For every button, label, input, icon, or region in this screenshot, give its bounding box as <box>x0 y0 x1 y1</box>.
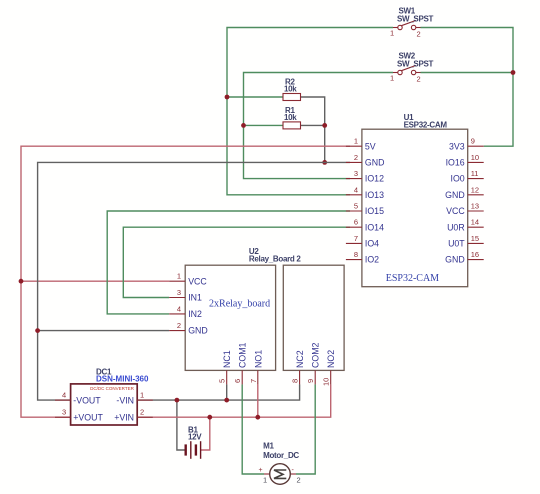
svg-text:IN2: IN2 <box>188 309 202 319</box>
svg-text:4: 4 <box>354 185 358 194</box>
switch SW2 <box>393 65 421 74</box>
svg-text:IO4: IO4 <box>365 239 379 249</box>
svg-text:10k: 10k <box>284 113 297 122</box>
svg-text:6: 6 <box>233 379 242 383</box>
U2 bottom pin stubs <box>227 370 331 384</box>
svg-text:5: 5 <box>218 379 227 383</box>
junction NO1 tap <box>255 415 260 420</box>
label SW1 reference <box>399 7 416 16</box>
junction SW2/3V3 <box>511 70 516 75</box>
DC1 pin names <box>73 396 134 423</box>
svg-text:12: 12 <box>471 185 479 194</box>
svg-text:Motor_DC: Motor_DC <box>263 451 299 460</box>
label R2 value 10k <box>284 85 297 94</box>
svg-text:3V3: 3V3 <box>449 141 465 151</box>
wire junction branch to R2 left <box>227 96 283 98</box>
pin number M1-2 <box>297 476 301 485</box>
svg-text:NC1: NC1 <box>222 350 232 368</box>
svg-text:2: 2 <box>297 476 301 485</box>
junction battery minus tap <box>175 398 180 403</box>
wire NO1 drop <box>257 384 259 417</box>
DC1 pin numbers <box>62 391 144 417</box>
svg-text:ESP32-CAM: ESP32-CAM <box>404 121 448 130</box>
svg-text:VCC: VCC <box>446 206 465 216</box>
junction R2 tap <box>225 95 230 100</box>
svg-text:1: 1 <box>263 476 267 485</box>
battery B1 <box>186 441 201 459</box>
op-amp U1 body (ESP32-CAM) <box>362 129 468 287</box>
svg-text:7: 7 <box>249 379 258 383</box>
U2 left pin names <box>188 276 208 335</box>
wire battery minus drop <box>177 400 186 450</box>
svg-text:SW_SPST: SW_SPST <box>397 60 434 69</box>
svg-text:COM1: COM1 <box>238 342 248 368</box>
svg-text:GND: GND <box>188 326 208 336</box>
wire -VIN rail: DC1 to battery minus, NC1, NC2 <box>137 384 299 400</box>
wire GND net: U1 pin2 left, down, to DC1 -VOUT <box>38 162 350 400</box>
svg-text:M1: M1 <box>263 442 274 451</box>
svg-text:3: 3 <box>354 169 358 178</box>
svg-text:IO12: IO12 <box>365 174 384 184</box>
junction R1 right <box>322 123 327 128</box>
wire battery plus riser <box>201 417 210 450</box>
wire SW2 pin2 to 3V3 vertical <box>421 72 514 74</box>
label 2xRelay_board <box>209 299 270 310</box>
pin number SW2-2 <box>417 75 421 84</box>
motor M1 <box>264 464 296 485</box>
U1 right pin numbers <box>471 137 479 259</box>
svg-text:Relay_Board 2: Relay_Board 2 <box>249 255 302 264</box>
label B1 value 12V <box>188 432 202 441</box>
label U1 reference <box>404 113 414 122</box>
svg-text:IO2: IO2 <box>365 255 379 265</box>
U2 bottom pin names NC1 COM1 NO1 NC2 COM2 NO2 <box>222 342 336 368</box>
label R1 reference <box>285 106 295 115</box>
label M1 value Motor_DC <box>263 451 299 460</box>
svg-text:3: 3 <box>177 288 181 297</box>
label SW1 value SW_SPST <box>397 15 434 24</box>
svg-text:ESP32-CAM: ESP32-CAM <box>386 273 439 284</box>
svg-text:VCC: VCC <box>188 276 207 286</box>
svg-text:-VIN: -VIN <box>116 396 134 406</box>
junction NC1 tap <box>224 398 229 403</box>
U1 right pin stubs 9-16 <box>468 146 484 259</box>
svg-text:U0T: U0T <box>448 239 465 249</box>
svg-text:9: 9 <box>306 379 315 383</box>
wire NC1 drop <box>226 384 228 400</box>
DC-DC converter DC1 <box>71 384 138 425</box>
svg-text:GND: GND <box>365 158 385 168</box>
junction VCC tap <box>19 279 24 284</box>
label B1 reference <box>188 425 198 434</box>
svg-text:SW_SPST: SW_SPST <box>397 15 434 24</box>
svg-text:14: 14 <box>471 218 479 227</box>
svg-text:1: 1 <box>390 74 394 83</box>
wire COM1 to motor pin1 <box>242 384 264 474</box>
wire +VIN rail: DC1 to battery plus, NO1, NO2 <box>137 384 331 417</box>
svg-text:IO16: IO16 <box>446 158 465 168</box>
pin number M1-1 <box>263 476 267 485</box>
label SW2 reference <box>399 52 416 61</box>
svg-text:2: 2 <box>140 408 144 417</box>
relay module U2 right box <box>283 265 344 370</box>
svg-text:10: 10 <box>471 153 479 162</box>
svg-text:13: 13 <box>471 202 479 211</box>
svg-text:8: 8 <box>354 250 358 259</box>
svg-text:4: 4 <box>62 391 66 400</box>
svg-text:5V: 5V <box>365 141 376 151</box>
svg-text:10: 10 <box>322 378 331 386</box>
svg-text:U0R: U0R <box>447 222 465 232</box>
svg-text:DC/DC CONVERTER: DC/DC CONVERTER <box>90 386 134 391</box>
svg-text:NC2: NC2 <box>295 350 305 368</box>
svg-text:DSN-MINI-360: DSN-MINI-360 <box>96 375 149 384</box>
motor minus sign <box>292 467 295 474</box>
relay module U2 left box <box>185 265 275 370</box>
svg-text:1: 1 <box>390 29 394 38</box>
junction U2 GND tap <box>35 328 40 333</box>
wire SW1 pin1 to IO13 <box>227 28 393 195</box>
switch SW1 <box>393 20 421 29</box>
U2 left pin numbers <box>177 272 181 330</box>
svg-text:4: 4 <box>177 304 181 313</box>
wire R1 right to vertical <box>301 124 325 126</box>
pin number SW1-1 <box>390 29 394 38</box>
U1 left pin numbers <box>354 137 358 259</box>
label DC/DC CONVERTER tiny <box>90 386 134 391</box>
svg-text:2: 2 <box>417 30 421 39</box>
svg-text:1: 1 <box>177 272 181 281</box>
resistor R2 <box>283 94 301 101</box>
svg-text:IO0: IO0 <box>451 174 465 184</box>
svg-text:GND: GND <box>445 190 465 200</box>
junction R1 tap <box>241 123 246 128</box>
svg-text:IN1: IN1 <box>188 293 202 303</box>
label U1 value ESP32-CAM (small) <box>404 121 448 130</box>
label R2 reference <box>285 78 295 87</box>
svg-text:COM2: COM2 <box>311 342 321 368</box>
svg-text:10k: 10k <box>284 85 297 94</box>
motor plus sign <box>259 467 263 474</box>
wire R2 right to GND line <box>301 97 325 162</box>
wire GND branch to U2 GND <box>38 330 170 332</box>
U1 right pin names <box>445 141 465 264</box>
svg-text:1: 1 <box>140 391 144 400</box>
wire SW2 pin1 to IO12 <box>244 73 394 179</box>
label DC1 reference <box>96 368 112 377</box>
wire SW1 pin2 to 3V3 vertical <box>421 28 514 147</box>
svg-text:2: 2 <box>177 321 181 330</box>
svg-text:5: 5 <box>354 202 358 211</box>
resistor R1 <box>283 122 301 129</box>
wire IO14 to U2 IN1 <box>123 227 350 297</box>
svg-text:-VOUT: -VOUT <box>73 396 101 406</box>
wire 5V net: U1 pin1 left, down, to DC1 +VOUT <box>21 146 350 417</box>
svg-text:2: 2 <box>417 75 421 84</box>
U1 left pin stubs 1-8 <box>346 146 362 259</box>
svg-text:3: 3 <box>62 408 66 417</box>
svg-text:9: 9 <box>471 137 475 146</box>
svg-text:IO13: IO13 <box>365 190 384 200</box>
wire COM2 to motor pin2 <box>296 384 315 474</box>
svg-text:6: 6 <box>354 218 358 227</box>
svg-text:7: 7 <box>354 234 358 243</box>
junction GND tap at resistor vertical <box>322 160 327 165</box>
svg-text:+VOUT: +VOUT <box>73 413 103 423</box>
svg-text:+: + <box>259 467 263 474</box>
wire IO15 to U2 IN2 <box>107 211 350 314</box>
junction battery plus tap <box>207 415 212 420</box>
svg-text:15: 15 <box>471 234 479 243</box>
svg-text:16: 16 <box>471 250 479 259</box>
DC1 left pin stubs <box>55 400 71 417</box>
U2 bottom pin numbers 5 6 7 8 9 10 <box>218 378 331 386</box>
label ESP32-CAM big <box>386 273 439 284</box>
svg-text:12V: 12V <box>188 432 202 441</box>
label U2 value Relay_Board 2 <box>249 255 302 264</box>
U2 left pin stubs <box>169 281 185 330</box>
svg-text:8: 8 <box>291 379 300 383</box>
svg-text:2: 2 <box>354 153 358 162</box>
label R1 value 10k <box>284 113 297 122</box>
svg-text:NO2: NO2 <box>326 350 336 368</box>
svg-text:NO1: NO1 <box>253 350 263 368</box>
svg-text:11: 11 <box>471 169 479 178</box>
U1 left pin names <box>365 141 385 264</box>
wire junction branch to R1 left <box>244 124 284 126</box>
label SW2 value SW_SPST <box>397 60 434 69</box>
svg-text:2xRelay_board: 2xRelay_board <box>209 299 270 310</box>
label DC1 value DSN-MINI-360 <box>96 375 149 384</box>
label U2 reference <box>249 247 259 256</box>
svg-text:1: 1 <box>354 137 358 146</box>
svg-text:IO15: IO15 <box>365 206 384 216</box>
wire 5V branch to U2 VCC <box>21 280 169 282</box>
svg-text:+VIN: +VIN <box>114 413 134 423</box>
svg-text:GND: GND <box>445 255 465 265</box>
pin number SW2-1 <box>390 74 394 83</box>
pin number SW1-2 <box>417 30 421 39</box>
svg-text:IO14: IO14 <box>365 222 384 232</box>
label M1 reference <box>263 442 274 451</box>
DC1 right pin stubs <box>137 400 153 417</box>
